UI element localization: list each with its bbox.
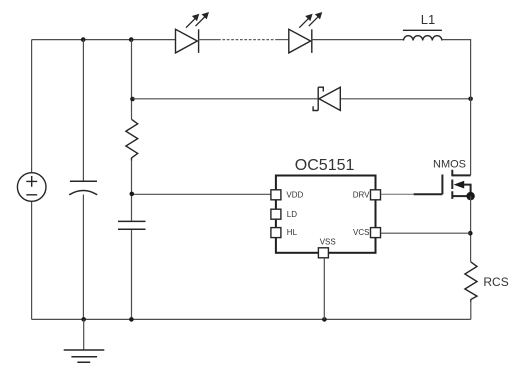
resistor R (upper divider resistor) [126, 119, 138, 160]
svg-text:VSS: VSS [320, 238, 336, 247]
wire: schottky diode anode wire to right rail [340, 98, 470, 100]
node: junction VDD/C2 [130, 192, 135, 197]
wire: inductor to right rail top corner, right rail down to NMOS drain [442, 40, 471, 176]
wire: VDD wire from C2 node to pin [132, 193, 271, 195]
LED D2 [289, 29, 312, 53]
voltage source [17, 173, 46, 202]
inductor L1 [403, 30, 442, 40]
svg-text:NMOS: NMOS [433, 159, 466, 171]
wire: NMOS source down to RCS [470, 196, 472, 262]
svg-text:HL: HL [287, 228, 298, 237]
node: junction right rail at schottky [468, 97, 473, 102]
IC U1 OC5151 body [276, 176, 376, 253]
wire: ground stem [83, 319, 85, 350]
pin VSS [318, 238, 335, 258]
capacitor C1 (polarized input cap) [69, 181, 97, 195]
node: top junction (R/C2 branch) [129, 37, 134, 42]
node: top-left junction (C1 branch) [81, 37, 86, 42]
wire: DRV to NMOS gate [381, 193, 414, 195]
wire: R/C2 branch vertical segments [131, 40, 133, 320]
LED D1 [176, 29, 199, 53]
svg-text:LD: LD [287, 210, 297, 219]
wire: C1 branch vertical [82, 40, 84, 320]
wire: RCS bottom to bottom rail corner [470, 300, 472, 320]
wire: LED D2 cathode to inductor [312, 39, 404, 41]
svg-text:L1: L1 [421, 12, 435, 27]
node: bottom rail junction at VSS branch [322, 317, 327, 322]
svg-text:VCS: VCS [353, 228, 369, 237]
svg-text:DRV: DRV [353, 190, 370, 199]
wire: schottky diode cathode wire [133, 98, 319, 100]
LED D1 light arrows [186, 13, 208, 28]
node: junction at Schottky feed [130, 97, 135, 102]
ground [64, 350, 105, 362]
transistor Q1 NMOS [414, 170, 471, 199]
pin DRV [353, 190, 381, 200]
svg-text:OC5151: OC5151 [295, 157, 355, 174]
wire: top rail from left corner to LED D1 anode [32, 39, 176, 41]
diode D3 (Schottky freewheel, pointing left) [313, 87, 340, 110]
node: bottom rail junction at ground branch [81, 317, 86, 322]
node: VCS junction on source leg [468, 231, 473, 236]
svg-text:VDD: VDD [286, 190, 303, 199]
wire: left rail (input source branch) [31, 40, 33, 320]
pin VDD [271, 190, 304, 200]
capacitor C2 [118, 221, 146, 229]
node: bottom rail junction at C2 branch [129, 317, 134, 322]
wire: VCS wire to source leg [381, 232, 470, 234]
resistor RCS [465, 262, 477, 302]
LED D2 light arrows [299, 13, 321, 28]
node: NMOS source/bulk dot [466, 192, 474, 200]
wire: VSS down to bottom rail [323, 258, 325, 320]
pin HL [271, 228, 298, 238]
pin VCS [353, 228, 380, 238]
svg-text:RCS: RCS [483, 275, 508, 289]
wire: bottom rail [32, 318, 471, 320]
transistor Q1 bulk arrow [454, 181, 465, 189]
pin LD [271, 209, 297, 219]
wire: dashed series-LED link [199, 39, 289, 41]
